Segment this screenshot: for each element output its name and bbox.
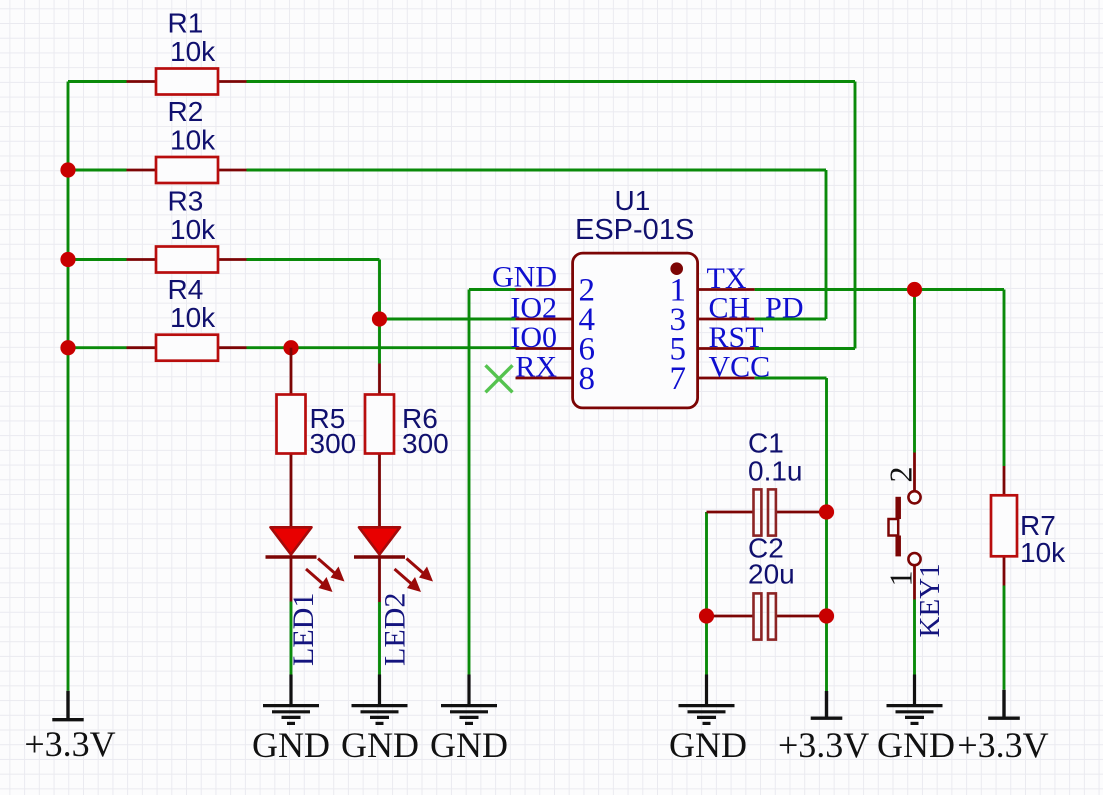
svg-text:U1: U1 xyxy=(615,185,651,216)
wire GND pin2 vertical xyxy=(468,290,471,675)
junction C2 left xyxy=(699,608,714,623)
wire GND pin2 horizontal xyxy=(469,288,516,291)
pin 7 lead xyxy=(698,377,755,380)
capacitor C1 xyxy=(707,489,827,535)
power +3.3V R7 xyxy=(988,690,1020,718)
wire IO2 node down to R6 xyxy=(378,319,381,364)
svg-text:2: 2 xyxy=(883,467,919,483)
svg-text:10k: 10k xyxy=(1020,537,1066,568)
svg-text:R1: R1 xyxy=(168,8,204,39)
wire CH_PD pin3 xyxy=(755,318,826,321)
svg-text:300: 300 xyxy=(402,428,449,459)
svg-text:R2: R2 xyxy=(168,96,204,127)
wire rail to R3 xyxy=(68,258,127,261)
resistor R7 xyxy=(991,466,1017,586)
wire LED2 cathode to GND xyxy=(378,602,381,675)
svg-text:10k: 10k xyxy=(170,125,216,156)
ground LED2 xyxy=(352,675,408,724)
svg-text:IO0: IO0 xyxy=(510,321,557,354)
power +3.3V left rail xyxy=(52,691,83,720)
wire C left column vertical xyxy=(705,512,708,675)
svg-text:+3.3V: +3.3V xyxy=(24,724,115,764)
pin 6 lead xyxy=(516,347,573,350)
svg-text:+3.3V: +3.3V xyxy=(957,725,1048,765)
wire TX junction to R7 column xyxy=(915,288,1005,291)
ground KEY1 xyxy=(887,675,943,724)
wire +3.3V left rail vertical xyxy=(67,82,70,691)
svg-text:+3.3V: +3.3V xyxy=(778,725,869,765)
wire R1 net top horizontal left xyxy=(68,80,127,83)
no-connect X on RX pin xyxy=(486,365,513,392)
wire R1 to RST vertical xyxy=(854,82,857,349)
wire LED1 cathode to GND xyxy=(290,602,293,675)
junction rail-R2 xyxy=(60,162,75,177)
svg-text:LED1: LED1 xyxy=(287,593,320,666)
pin 8 lead xyxy=(516,377,573,380)
resistor R4 xyxy=(127,335,247,361)
wire R3 to IO2 vertical xyxy=(378,260,381,320)
svg-text:VCC: VCC xyxy=(709,351,771,384)
svg-text:TX: TX xyxy=(707,262,747,295)
op-amp U1 body xyxy=(573,253,698,408)
pin 2 lead xyxy=(516,288,573,291)
ground U1 pin2 xyxy=(441,675,497,724)
svg-text:20u: 20u xyxy=(748,559,795,590)
resistor R5 xyxy=(277,348,306,528)
junction C1 right xyxy=(819,504,834,519)
wire R7 column vertical xyxy=(1003,290,1006,467)
svg-text:LED2: LED2 xyxy=(379,593,412,666)
wire R2 to CH_PD horizontal xyxy=(247,169,827,172)
resistor R2 xyxy=(127,157,247,183)
junction rail-R3 xyxy=(60,252,75,267)
svg-text:GND: GND xyxy=(669,725,747,765)
wire RST pin5 xyxy=(755,347,855,350)
wire R2 to CH_PD vertical xyxy=(825,170,828,319)
resistor R6 xyxy=(365,364,394,528)
resistor R1 xyxy=(127,69,247,95)
LED2 diode xyxy=(354,527,433,602)
wire R7 to +3.3V xyxy=(1003,586,1006,690)
pin 3 lead xyxy=(698,318,755,321)
svg-text:GND: GND xyxy=(430,725,508,765)
wire R4 IO0 row to pin 6 xyxy=(247,346,516,349)
svg-text:RX: RX xyxy=(515,351,557,384)
svg-text:GND: GND xyxy=(252,725,330,765)
pin 5 lead xyxy=(698,347,755,350)
wire KEY1 pin1 to GND xyxy=(913,600,916,675)
svg-text:C1: C1 xyxy=(748,428,784,459)
svg-text:KEY1: KEY1 xyxy=(914,563,946,637)
resistor R3 xyxy=(127,247,247,273)
wire rail to R2 xyxy=(68,169,127,172)
svg-text:R4: R4 xyxy=(168,274,204,305)
pin 1 lead xyxy=(698,288,755,291)
junction IO0-R5 xyxy=(283,340,298,355)
svg-text:10k: 10k xyxy=(170,214,216,245)
svg-text:300: 300 xyxy=(310,428,357,459)
svg-text:10k: 10k xyxy=(170,302,216,333)
svg-text:0.1u: 0.1u xyxy=(748,456,803,487)
LED1 diode xyxy=(266,527,345,601)
capacitor C2 xyxy=(707,593,827,639)
power +3.3V VCC xyxy=(811,691,843,718)
svg-text:8: 8 xyxy=(579,361,596,397)
pin 1 polarity dot xyxy=(670,262,683,275)
ground LED1 xyxy=(263,675,319,724)
wire IO2 row to pin 4 xyxy=(380,318,516,321)
junction IO2-R6 xyxy=(372,311,387,326)
svg-text:ESP-01S: ESP-01S xyxy=(575,214,694,246)
svg-text:10k: 10k xyxy=(170,36,216,67)
junction TX-KEY1 xyxy=(907,282,922,297)
junction rail-R4 xyxy=(60,340,75,355)
svg-text:7: 7 xyxy=(670,361,687,397)
svg-text:GND: GND xyxy=(877,725,955,765)
wire VCC vertical to +3.3V xyxy=(825,378,828,691)
svg-text:CH PD: CH PD xyxy=(709,292,804,325)
svg-text:IO2: IO2 xyxy=(510,292,557,325)
pin 4 lead xyxy=(516,318,573,321)
wire rail to R4 xyxy=(68,346,127,349)
wire TX junction down to KEY1 xyxy=(913,290,916,453)
ground C1 C2 xyxy=(679,675,735,724)
svg-text:RST: RST xyxy=(709,321,764,354)
switch KEY1 xyxy=(889,453,921,600)
wire VCC pin7 horizontal xyxy=(755,377,827,380)
junction C2 right xyxy=(819,608,834,623)
wire TX pin1 to junction xyxy=(755,288,915,291)
wire R1 to RST horizontal xyxy=(247,80,856,83)
svg-text:R3: R3 xyxy=(168,186,204,217)
svg-text:GND: GND xyxy=(341,725,419,765)
svg-text:GND: GND xyxy=(492,261,557,294)
wire R3 to IO2 horizontal xyxy=(247,258,380,261)
